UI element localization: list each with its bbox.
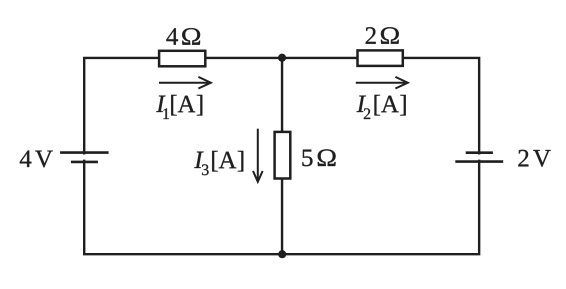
battery V1 short plate <box>71 161 98 164</box>
battery V2 short plate <box>466 151 493 154</box>
current arrow I2 <box>356 77 408 89</box>
current arrow I1 <box>159 77 211 89</box>
battery V1 value label 4 V <box>20 151 53 168</box>
current label I3 [A] <box>194 151 243 175</box>
battery V1 long plate <box>60 151 109 154</box>
resistor R3 5Ω box <box>275 132 291 179</box>
current label I1 [A] <box>156 95 202 119</box>
wire: middle branch <box>281 58 283 254</box>
resistor R1 4Ω box <box>159 51 205 67</box>
wire: top-left segment and upper left branch <box>84 58 282 155</box>
junction node top <box>278 54 286 62</box>
battery V2 long plate <box>455 160 503 163</box>
resistor R1 value label 4 Ω <box>166 28 200 45</box>
current label I2 [A] <box>357 95 406 119</box>
wire: upper right branch and top-right segment <box>282 58 479 155</box>
battery V2 value label 2 V <box>518 150 550 167</box>
resistor R3 value label 5 Ω <box>302 149 335 166</box>
resistor R2 2Ω box <box>358 50 403 66</box>
junction node bottom <box>278 250 286 258</box>
current arrow I3 <box>253 129 263 182</box>
wire: lower left branch, bottom segment, lower right branch <box>84 160 479 255</box>
resistor R2 value label 2 Ω <box>366 27 399 44</box>
